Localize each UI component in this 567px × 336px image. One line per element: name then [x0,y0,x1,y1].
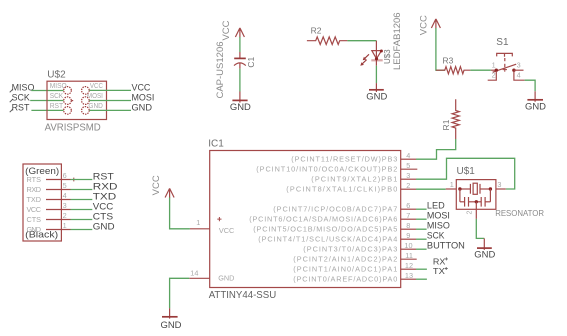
wire IC1 pin3 to resonator pin3 [416,158,515,189]
svg-text:1: 1 [450,180,454,189]
wire C1 to GND [239,69,241,92]
ground below resonator [474,238,495,259]
capacitor C1 [215,41,256,98]
ground below C1 [230,92,251,112]
wire IC1 pin13 stub [416,278,427,280]
svg-text:GND: GND [93,221,115,231]
svg-text:4: 4 [517,71,521,80]
power VCC above C1 [221,20,245,40]
pin 5 RXD of J1 [46,181,71,190]
wire LED to GND [375,66,377,83]
node RST label tick [10,109,13,112]
resistor R1 [441,99,459,139]
pin 7 PA6 of IC1 [249,211,416,224]
resistor R3 [436,56,471,74]
svg-text:MOSI: MOSI [132,92,155,102]
svg-text:R1: R1 [441,119,451,130]
connector U$2 AVRISPSMD [45,70,107,134]
svg-text:VCC: VCC [221,20,232,40]
svg-text:GND: GND [474,249,495,259]
pin 4 TXD of J1 [46,191,71,200]
svg-text:LEDFAB1206: LEDFAB1206 [392,12,403,70]
ground below S1 [525,91,546,111]
switch S1 [488,37,525,80]
wire SCK to U$2 [30,100,64,102]
ground below IC1 [161,308,182,330]
svg-text:RESONATOR: RESONATOR [495,209,544,218]
svg-text:U$3: U$3 [383,49,392,64]
svg-text:3: 3 [63,201,67,210]
node VCC right of U$2 [132,82,151,92]
svg-text:2: 2 [492,71,496,80]
pin 10 PA3 of IC1 [303,241,416,254]
svg-text:12: 12 [405,261,413,270]
svg-text:AVRISPSMD: AVRISPSMD [45,122,102,134]
power VCC left of IC1 [151,175,174,198]
wire resonator pin2 to GND [476,219,484,239]
svg-text:R2: R2 [311,26,322,36]
pin 2 CTS of J1 [46,211,71,220]
pin 6 RTS of J1 [46,171,71,180]
svg-text:CTS: CTS [93,211,113,221]
svg-text:14: 14 [190,269,198,278]
pad circle U$2 MISO [64,87,72,95]
pad circle U$2 MOSI [82,97,90,105]
svg-text:RX: RX [433,257,446,266]
resistor R2 [307,26,348,45]
wire IC1 pin8 stub [416,228,427,230]
wire U$2 to VCC label [89,89,131,91]
svg-text:(PCINT3/T0/ADC3)PA3: (PCINT3/T0/ADC3)PA3 [303,245,397,254]
svg-text:(PCINT4/T1/SCL/USCK/ADC4)PA4: (PCINT4/T1/SCL/USCK/ADC4)PA4 [258,235,397,244]
svg-text:(PCINT11/RESET/DW)PB3: (PCINT11/RESET/DW)PB3 [291,155,397,164]
node LED [427,200,445,210]
svg-text:(PCINT10/INT0/OC0A/CKOUT)PB2: (PCINT10/INT0/OC0A/CKOUT)PB2 [256,165,397,174]
svg-text:9: 9 [406,231,410,240]
svg-text:GND: GND [366,91,387,101]
svg-text:GND: GND [230,102,251,112]
pin 3 PB1 of IC1 [311,171,416,184]
svg-text:CAP-US1206: CAP-US1206 [215,41,226,98]
svg-text:8: 8 [406,221,410,230]
svg-text:(PCINT7/ICP/OC0B/ADC7)PA7: (PCINT7/ICP/OC0B/ADC7)PA7 [273,205,397,214]
svg-text:1: 1 [492,60,496,69]
pin 13 PA0 of IC1 [293,271,416,284]
wire J1 TXD to TXD label [71,199,93,201]
ground below LED [366,83,387,101]
pin 1 GND of J1 [46,221,71,230]
wire MISO to U$2 [31,90,63,92]
svg-text:GND: GND [88,101,103,110]
svg-text:LED: LED [427,200,445,210]
svg-text:2: 2 [467,211,474,215]
node RST at J1 [93,171,114,181]
svg-text:TXD: TXD [93,191,117,201]
svg-text:VCC: VCC [418,15,429,35]
LED U$3 [360,12,403,70]
wire J1 RXD to RXD label [71,189,93,191]
svg-text:SCK: SCK [427,230,445,240]
node RX [433,257,448,266]
svg-text:4: 4 [63,191,67,200]
svg-text:RXD: RXD [27,185,42,194]
node MOSI at IC1 [427,210,450,220]
node SCK [12,92,31,102]
node BUTTON [427,240,465,250]
svg-text:U$2: U$2 [47,70,66,81]
pad circle U$2 SCK [64,97,73,105]
svg-text:(PCINT0/AREF/ADC0)PA0: (PCINT0/AREF/ADC0)PA0 [293,275,397,284]
IC1 ATTINY44 box [208,138,401,301]
svg-text:CTS: CTS [27,215,42,224]
wire R3 to S1 [470,69,491,71]
svg-text:VCC: VCC [27,205,42,214]
wire IC1 pin10 stub [416,248,427,250]
svg-text:RST: RST [93,171,114,181]
svg-text:(PCINT6/OC1A/SDA/MOSI/ADC6)PA6: (PCINT6/OC1A/SDA/MOSI/ADC6)PA6 [249,215,397,224]
pin 6 PA7 of IC1 [273,201,416,214]
node MISO [12,83,35,93]
svg-text:MISO: MISO [12,83,35,93]
svg-text:10: 10 [404,241,412,250]
pad circle U$2 VCC [82,87,90,95]
node SCK at IC1 [427,230,445,240]
wire VCC to C1 [239,37,241,52]
svg-text:VCC: VCC [219,226,234,235]
svg-text:GND: GND [218,274,234,283]
wire R2 to LED [347,40,376,42]
pin 1 VCC of IC1 [190,218,210,229]
svg-text:(PCINT8/XTAL1/CLKI)PB0: (PCINT8/XTAL1/CLKI)PB0 [286,185,397,194]
node TX [433,267,448,276]
svg-text:MOSI: MOSI [87,91,103,100]
node RXD at J1 [93,181,118,191]
wire IC1 pin9 stub [416,238,427,240]
svg-text:2: 2 [63,211,67,220]
pin 12 PA1 of IC1 [293,261,416,274]
svg-text:S1: S1 [496,37,509,48]
wire J1 RTS to RST label [71,179,93,181]
svg-text:1: 1 [196,218,200,227]
svg-text:5: 5 [63,181,67,190]
node TXD at J1 [93,191,117,201]
svg-text:TX: TX [433,267,446,276]
svg-text:11: 11 [405,251,413,260]
wire IC1 pin2 to resonator pin1 [416,188,446,190]
svg-text:R3: R3 [443,56,454,66]
pin 4 PB3 of IC1 [291,151,416,164]
connector J1 FTDI header [23,164,61,241]
pin 9 PA4 of IC1 [258,231,416,244]
pin 3 VCC of J1 [46,201,71,210]
svg-text:VCC: VCC [132,82,151,92]
svg-text:6: 6 [63,171,67,180]
node CTS at J1 [93,211,113,221]
svg-text:RTS: RTS [27,175,42,184]
svg-text:MISO: MISO [427,220,450,230]
svg-text:MOSI: MOSI [427,210,450,220]
svg-text:VCC: VCC [90,81,103,90]
wire IC1 pin7 stub [416,218,427,220]
svg-text:(PCINT2/AIN1/ADC2)PA2: (PCINT2/AIN1/ADC2)PA2 [293,255,397,264]
svg-text:RST: RST [12,102,30,112]
svg-text:7: 7 [406,211,410,220]
svg-text:VCC: VCC [151,175,162,195]
resonator U$1 [446,166,544,219]
svg-text:3: 3 [497,180,501,189]
svg-text:IC1: IC1 [208,138,224,149]
svg-text:4: 4 [406,151,410,160]
svg-text:RST: RST [50,101,64,110]
pad circle U$2 RST [64,107,72,115]
svg-text:C1: C1 [246,56,256,67]
node SCK label tick [10,99,13,102]
node GND right of U$2 [132,102,153,112]
power VCC above R3 [418,15,440,35]
svg-text:GND: GND [132,102,153,112]
wire VCC to IC1 pin1 [170,198,190,229]
node GND at J1 [93,221,115,231]
svg-text:GND: GND [525,101,546,111]
svg-text:SCK: SCK [12,92,31,102]
wire IC1 pin12 stub [416,268,427,270]
pin 5 PB2 of IC1 [256,161,417,174]
svg-text:TXD: TXD [27,195,42,204]
wire RST to U$2 [31,109,63,111]
svg-text:(PCINT5/OC1B/MISO/DO/ADC5)PA5: (PCINT5/OC1B/MISO/DO/ADC5)PA5 [253,225,397,234]
svg-text:(PCINT1/AIN0/ADC1)PA1: (PCINT1/AIN0/ADC1)PA1 [293,265,397,274]
svg-text:3: 3 [517,60,521,69]
node MOSI right of U$2 [132,92,155,102]
node MISO label tick [10,89,13,92]
svg-text:BUTTON: BUTTON [427,240,465,250]
wire IC1 pin14 to GND [170,278,190,308]
wire VCC to R3 [436,28,445,70]
pin 2 PB0 of IC1 [286,181,416,194]
node RST [12,102,30,112]
junction cross on RTS wire [72,178,76,182]
svg-text:RXD: RXD [93,181,118,191]
svg-text:6: 6 [406,201,410,210]
svg-text:3: 3 [406,171,410,180]
wire S1 pin4 to GND [525,80,536,91]
wire J1 CTS to CTS label [71,219,93,221]
wire IC1 pin6 stub [416,208,427,210]
node VCC at J1 [93,201,114,211]
svg-text:GND: GND [27,225,42,234]
svg-text:U$1: U$1 [457,166,476,177]
pin 14 GND of IC1 [189,269,209,279]
svg-text:ATTINY44-SSU: ATTINY44-SSU [209,289,277,301]
svg-text:5: 5 [406,161,410,170]
svg-text:GND: GND [161,320,182,330]
pin 11 PA2 of IC1 [293,251,416,264]
wire J1 GND to GND label [71,229,93,231]
pad circle U$2 GND [82,107,90,115]
pin 8 PA5 of IC1 [253,221,416,234]
node MISO at IC1 [427,220,450,230]
wire J1 VCC to VCC label [71,209,93,211]
svg-text:SCK: SCK [50,91,64,100]
svg-text:2: 2 [406,181,410,190]
svg-text:(PCINT9/XTAL2)PB1: (PCINT9/XTAL2)PB1 [311,175,397,184]
wire U$2 to GND label [89,109,131,111]
svg-text:VCC: VCC [93,201,114,211]
svg-text:1: 1 [63,221,67,230]
svg-text:13: 13 [405,271,413,280]
wire U$2 to MOSI label [89,100,131,102]
wire R1 to IC1 pin4 [416,139,456,159]
